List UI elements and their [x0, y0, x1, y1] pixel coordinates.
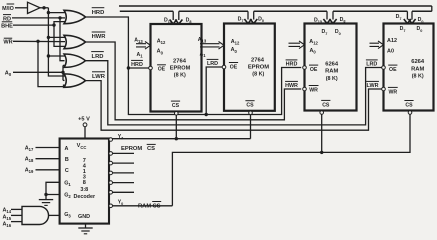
svg-text:BHE: BHE [1, 23, 13, 29]
wire D7/D0 taps U5 [404, 11, 416, 23]
svg-text:LWR: LWR [367, 83, 379, 89]
U6 output Y5 stub [109, 161, 134, 165]
label LRD at U5 OE [366, 60, 378, 68]
label D8 U2 [186, 17, 192, 24]
svg-text:HRD: HRD [92, 10, 105, 16]
svg-text:RAM: RAM [411, 66, 424, 72]
svg-text:A12: A12 [309, 39, 318, 46]
wire G3 [49, 214, 60, 216]
U5 address bus arrow [370, 41, 384, 49]
wire A0 net [61, 65, 65, 80]
svg-text:A0: A0 [157, 49, 164, 56]
svg-text:HRD: HRD [131, 62, 143, 68]
label D15 U4 [314, 17, 322, 24]
svg-text:2764: 2764 [251, 57, 265, 63]
svg-text:RAM: RAM [325, 69, 338, 75]
svg-text:LRD: LRD [366, 62, 377, 68]
wire LRD net [86, 61, 384, 125]
input A16 [3, 221, 23, 228]
svg-text:A16: A16 [3, 221, 12, 228]
svg-text:A1: A1 [199, 52, 206, 59]
wire D15/D8 taps U2 [170, 11, 183, 24]
U3 address bus arrow A13-A1 [198, 37, 224, 58]
label HRD at U4 OE [286, 60, 298, 68]
wire EPROM CS net [113, 115, 251, 141]
power +5V [78, 117, 90, 139]
svg-text:+5 V: +5 V [78, 117, 90, 123]
input A14 [3, 207, 23, 214]
U4 WR pin bubble [303, 87, 307, 91]
label EPROM CS [121, 144, 156, 152]
decoder U6 74138 3:8 [60, 139, 109, 224]
U6 output Y3 stub [109, 181, 134, 185]
svg-text:CS: CS [172, 103, 180, 109]
input A17 [25, 145, 60, 152]
and-gate G3 [22, 206, 49, 224]
label D15 U2 [164, 17, 172, 24]
wire RAM CS net [113, 114, 411, 206]
svg-text:A12: A12 [157, 38, 166, 45]
U6 output Y4 stub [109, 171, 134, 175]
label LWR at U5 WR [366, 81, 379, 89]
label D7 U3 [238, 17, 244, 24]
input RD [3, 15, 60, 23]
svg-text:GND: GND [78, 214, 90, 220]
svg-text:A15: A15 [3, 214, 12, 221]
svg-text:G3: G3 [64, 212, 71, 219]
svg-text:WR: WR [388, 89, 397, 95]
svg-text:(8 K): (8 K) [326, 76, 338, 82]
wire LWR net [86, 81, 384, 131]
U6 output Y0 [109, 200, 123, 208]
U5 CS pin bubble [408, 111, 412, 115]
label RAM CS [138, 202, 161, 210]
U5 OE pin bubble [382, 66, 386, 70]
svg-text:3:8: 3:8 [80, 187, 88, 193]
svg-text:EPROM: EPROM [248, 65, 269, 71]
ground at G2 [39, 200, 53, 206]
svg-text:CS: CS [405, 102, 413, 108]
svg-text:G1: G1 [64, 181, 71, 188]
svg-text:HWR: HWR [285, 83, 298, 89]
wire D15/D8 taps U4 [323, 11, 336, 23]
wire BHE net [52, 22, 65, 47]
svg-text:OE: OE [310, 67, 318, 73]
input A19 [25, 168, 60, 175]
RAM U4 6264 [305, 24, 357, 111]
svg-text:A18: A18 [25, 157, 34, 164]
svg-text:EPROM: EPROM [121, 146, 142, 152]
svg-text:A12: A12 [231, 39, 240, 46]
label HRD [92, 8, 105, 16]
U6 output Y7 [109, 134, 123, 141]
svg-text:B: B [65, 157, 69, 163]
svg-text:OE: OE [389, 67, 397, 73]
svg-text:A0: A0 [5, 71, 12, 78]
svg-text:A13: A13 [198, 37, 207, 44]
svg-text:Decoder: Decoder [74, 194, 96, 200]
svg-text:A: A [65, 146, 69, 152]
input BHE [1, 22, 54, 30]
U2 OE pin bubble [149, 66, 153, 70]
U2 address bus arrow A13-A1 [134, 38, 150, 59]
wire G1 G2 to ground [44, 182, 59, 199]
svg-text:HWR: HWR [92, 34, 107, 40]
U3 OE pin bubble [222, 65, 226, 69]
wire RD net [58, 16, 65, 61]
svg-text:OE: OE [158, 67, 166, 73]
svg-text:(8 K): (8 K) [252, 72, 264, 78]
ground at GND pin [78, 224, 92, 234]
svg-text:EPROM: EPROM [170, 66, 191, 72]
U2 CS pin bubble [175, 112, 179, 116]
wire M/IO inverted net [40, 6, 65, 76]
svg-text:VCC: VCC [77, 143, 87, 150]
wire WR net [36, 40, 65, 87]
svg-text:CS: CS [153, 203, 161, 209]
label D0 U5 [418, 17, 424, 24]
input A18 [25, 157, 60, 164]
input A0 [5, 71, 63, 78]
svg-text:CS: CS [246, 103, 254, 109]
input WR [3, 38, 65, 46]
U6 output Y2 stub [109, 191, 134, 195]
label HWR at U4 WR [285, 81, 298, 89]
svg-text:A0: A0 [387, 49, 394, 55]
EPROM U2 2764 [151, 24, 202, 112]
label HWR [92, 32, 107, 40]
wire HRD net [86, 17, 302, 115]
svg-text:CS: CS [147, 146, 155, 152]
svg-text:WR: WR [309, 87, 318, 93]
svg-text:(8 K): (8 K) [412, 74, 424, 80]
label LRD [91, 52, 104, 60]
svg-text:A17: A17 [25, 145, 34, 152]
RAM U5 6264 [384, 24, 434, 111]
label HRD at U2 OE [131, 60, 143, 68]
label D8 U4 [340, 17, 346, 24]
wire D7/D0 taps U3 [244, 11, 257, 23]
svg-text:A12: A12 [387, 38, 397, 44]
or-gate LWR [64, 74, 86, 87]
svg-text:M/IO: M/IO [2, 6, 14, 12]
wire data bus upper D15-D8 [119, 6, 432, 11]
svg-text:A19: A19 [25, 168, 34, 175]
input M/IO [2, 4, 27, 12]
EPROM U3 2764 [224, 24, 275, 111]
U3 CS pin bubble [249, 111, 253, 115]
or-gate LRD [64, 54, 86, 67]
svg-text:LRD: LRD [207, 61, 218, 67]
svg-text:6264: 6264 [411, 59, 425, 65]
svg-text:A0: A0 [309, 48, 316, 55]
label LWR [92, 72, 106, 80]
svg-text:RAM: RAM [138, 203, 151, 209]
U4 address bus arrow [289, 41, 305, 49]
inverter U1 [28, 2, 41, 13]
svg-text:(8 K): (8 K) [174, 73, 186, 79]
U5 WR pin bubble [382, 87, 386, 91]
svg-text:WR: WR [3, 40, 12, 46]
U4 OE pin bubble [303, 66, 307, 70]
svg-text:A1: A1 [136, 52, 143, 59]
svg-text:6264: 6264 [325, 61, 339, 67]
wire data bus lower segments [120, 10, 432, 12]
label D7 U5 [396, 14, 402, 21]
U6 output Y6 stub [109, 152, 134, 156]
svg-text:OE: OE [230, 64, 238, 70]
wire HWR net [86, 42, 302, 120]
svg-text:C: C [65, 168, 69, 174]
input A15 [3, 214, 23, 221]
svg-text:2764: 2764 [173, 58, 187, 64]
svg-text:HRD: HRD [286, 62, 298, 68]
svg-text:LRD: LRD [92, 54, 104, 60]
or-gate HWR [64, 35, 86, 48]
svg-text:G2: G2 [64, 193, 71, 200]
svg-text:CS: CS [322, 102, 330, 108]
label LRD at U3 OE [207, 59, 219, 67]
svg-text:8: 8 [83, 180, 86, 186]
svg-text:LWR: LWR [92, 74, 106, 80]
svg-text:A14: A14 [3, 207, 12, 214]
U4 CS pin bubble [320, 111, 324, 115]
or-gate HRD [64, 10, 86, 23]
svg-text:A0: A0 [231, 47, 238, 54]
label D0 U3 [258, 17, 264, 24]
